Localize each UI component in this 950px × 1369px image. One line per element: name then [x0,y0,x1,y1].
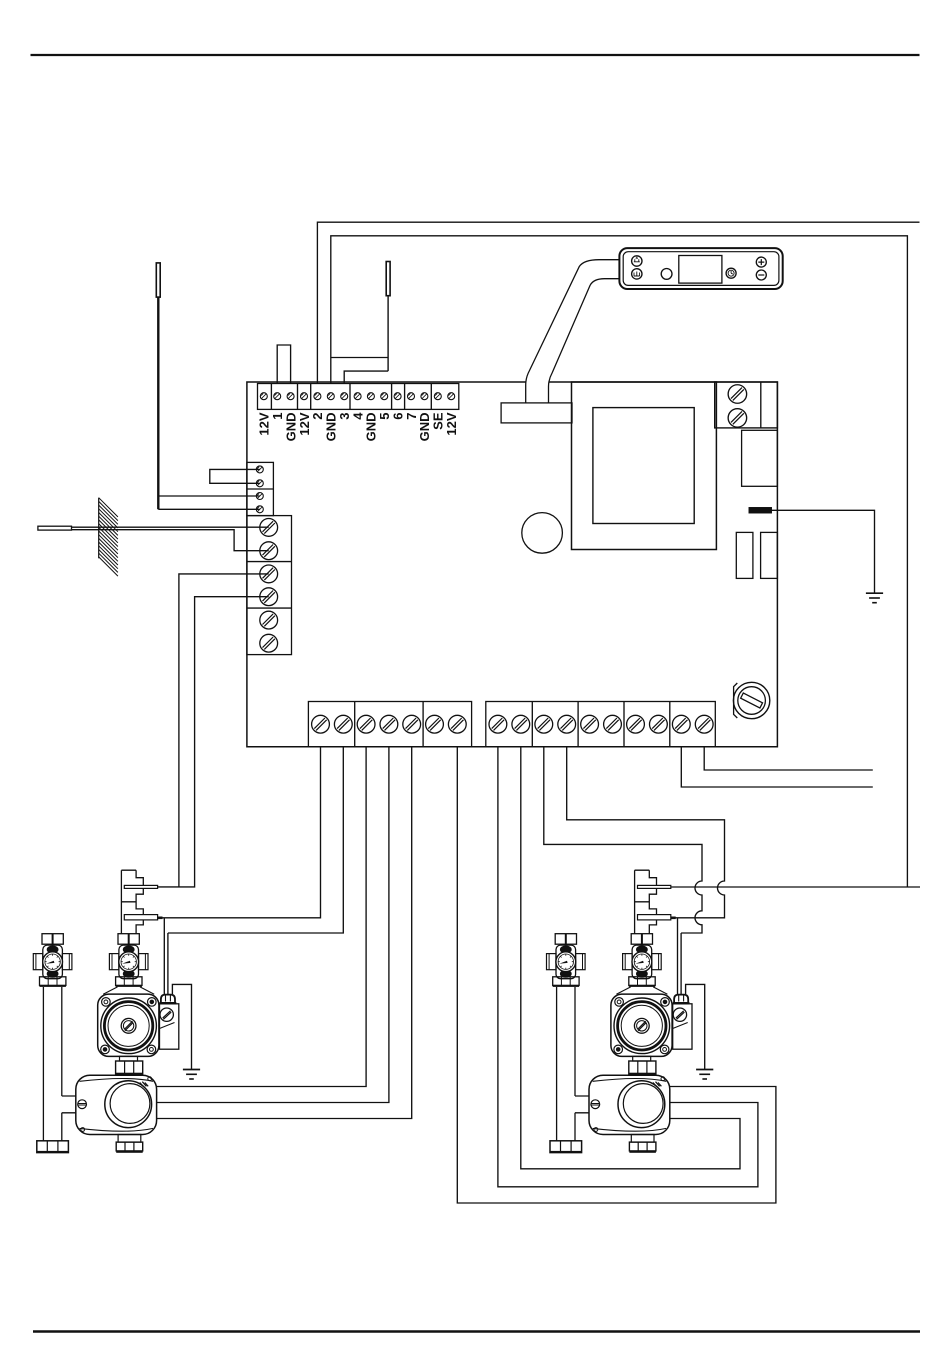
display button plus [756,257,766,267]
bottom-right terminal strip [486,702,716,747]
right actuator wire loop to right strip s1 [498,747,758,1187]
top strip screws pins 1-15 [260,393,454,400]
right mains screw block [715,382,778,428]
left supply sensor wire to strip s1 [158,747,321,918]
right strip s10 stub wire [704,747,873,770]
transformer T1 [572,382,717,550]
wall section hatch [99,498,118,576]
right strip s9 stub wire [681,747,873,787]
buzzer [522,513,563,554]
right actuator wire loop to strip s7 [457,747,776,1203]
display button DHW [632,256,642,266]
svg-text:12V: 12V [444,412,459,435]
fuse clip holders [736,532,777,578]
room display unit [619,248,782,289]
outside temperature sensor [38,526,72,530]
trimmer potentiometer [733,682,769,718]
display ribbon cable [526,260,620,403]
wire net GND to right sensor loop [331,236,908,887]
flow sensor wires to 6-block pins 3,4 [158,574,269,887]
board earth symbol [866,593,883,603]
wire net 2 to page edge [317,222,919,383]
top strip pin labels [257,412,459,442]
display LED [661,269,672,280]
radio antenna A2 [386,262,390,372]
jumper staple on strip pins 1-GND [277,345,290,384]
left pump wire to strip s2 [168,747,343,933]
bottom page rule [33,1330,920,1332]
fuse earth wire [771,510,874,593]
display button heating [632,269,642,279]
left actuator wires to strip s3,s4,s5 [157,747,412,1119]
display button clock [726,268,736,278]
right supply sensor wire to page edge [671,886,920,888]
relay box [742,430,778,486]
bottom-left terminal strip [308,702,471,747]
right supply sensor wire from right strip s4 with hop [567,747,725,918]
display button minus [756,270,766,280]
6-pole output terminal block [247,516,292,655]
left pump-valve assembly [33,870,200,1153]
right pump wire from right strip s3 with hops [544,747,702,933]
antenna A2 wires to strip pins GND,3 [331,358,388,384]
right pump-valve assembly [547,870,714,1153]
outside sensor wire pair [72,527,269,551]
jumper loop on small block pins 1-2 [210,469,260,483]
fuse F1 [749,508,771,513]
radio antenna A1 [156,263,160,509]
antenna A1 feed wires to small block [158,496,259,509]
right actuator wire loop to right strip s2 [521,747,740,1169]
top page rule [31,54,920,56]
display LCD window [679,256,722,284]
display cable connector [501,403,572,423]
controller board outline [247,382,778,747]
small 4-pole terminal block [247,462,274,515]
top terminal strip X1 [258,384,459,410]
